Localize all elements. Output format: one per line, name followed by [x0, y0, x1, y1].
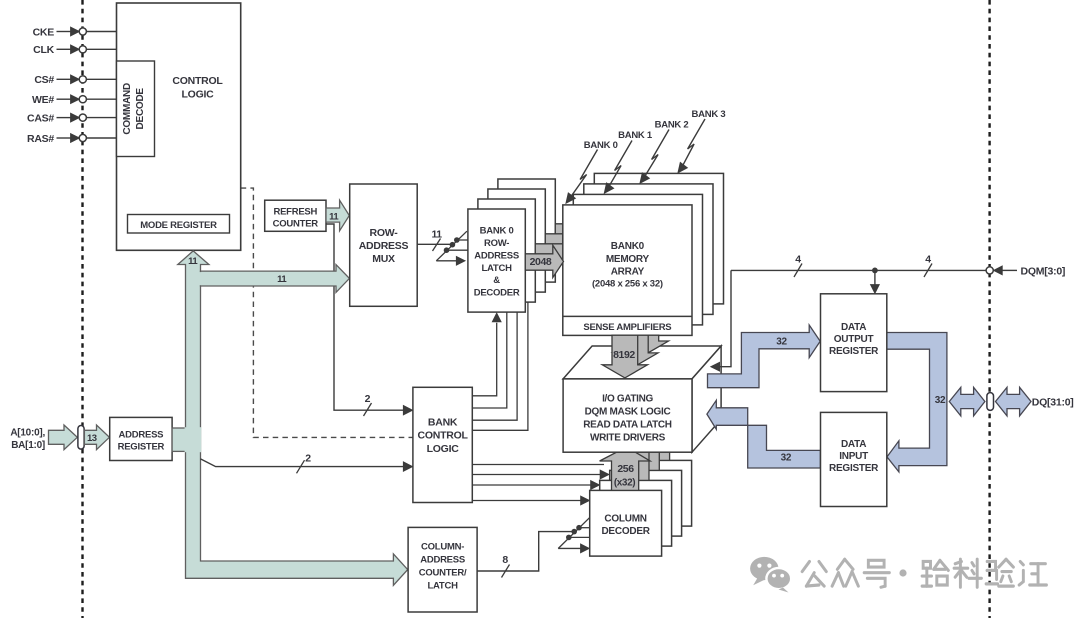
svg-text:BANK 1: BANK 1 [618, 130, 653, 141]
teal arrow REFRESH COUNTER to ROW-ADDRESS MUX with 11 [326, 200, 349, 231]
svg-text:DATA: DATA [841, 322, 866, 333]
block BANK 0 ROW-ADDRESS LATCH & DECODER [468, 209, 525, 312]
block BANK CONTROL LOGIC [413, 387, 472, 502]
svg-text:ADDRESS: ADDRESS [420, 555, 465, 566]
svg-text:DQM MASK LOGIC: DQM MASK LOGIC [585, 407, 671, 418]
bus 2048 arrow bank 0 with label [525, 245, 563, 277]
left boundary dashed line [81, 0, 83, 618]
svg-text:LOGIC: LOGIC [427, 443, 460, 455]
block BANK 2 ROW-ADDRESS LATCH (stacked) [488, 189, 545, 292]
blue double arrow trunk to DQ pad [949, 387, 985, 416]
svg-text:CS#: CS# [34, 74, 54, 86]
svg-text:LATCH: LATCH [427, 581, 458, 592]
arrowhead into BANK 0 latch bottom [492, 313, 501, 322]
bank label BANK 1 with zigzag pointer [604, 130, 653, 193]
bus 2048 arrow bank 3 (stacked) [555, 215, 593, 247]
block DATA OUTPUT REGISTER [821, 294, 887, 392]
input signal CAS# [27, 112, 117, 124]
wire bank select 2 to row-address latch stack [472, 312, 517, 420]
teal arm ADDRESS REGISTER to trunk [172, 428, 186, 451]
block BANK 3 ROW-ADDRESS LATCH (stacked) [498, 179, 555, 282]
svg-text:BANK 0: BANK 0 [584, 140, 618, 151]
block COLUMN-ADDRESS COUNTER/LATCH [408, 527, 477, 612]
svg-text:BA[1:0]: BA[1:0] [11, 440, 45, 451]
input signal WE# [32, 94, 117, 106]
svg-text:INPUT: INPUT [839, 451, 868, 462]
input signal CS# [34, 74, 116, 86]
svg-text:2: 2 [305, 453, 311, 465]
wire 2-bit bank address to BANK CONTROL LOGIC (upper) [326, 224, 412, 416]
teal input arrow A/BA to pad [49, 425, 78, 450]
svg-text:8192: 8192 [613, 349, 635, 361]
svg-text:MEMORY: MEMORY [606, 254, 650, 265]
svg-text:READ DATA LATCH: READ DATA LATCH [583, 420, 672, 431]
svg-text:13: 13 [87, 433, 97, 444]
block BANK 1 ROW-ADDRESS LATCH (stacked) [478, 199, 535, 302]
svg-text:REFRESH: REFRESH [273, 206, 317, 217]
svg-text:I/O GATING: I/O GATING [602, 394, 653, 405]
svg-text:4: 4 [925, 253, 931, 265]
wire row address 11 from MUX to latch fan [417, 229, 452, 251]
svg-text:LOGIC: LOGIC [182, 88, 215, 100]
svg-text:REGISTER: REGISTER [829, 346, 879, 357]
svg-text:DECODER: DECODER [474, 288, 520, 299]
svg-text:2048: 2048 [530, 256, 552, 268]
bus 256 arrow bank 3 (stacked) [631, 422, 682, 460]
svg-text:MODE REGISTER: MODE REGISTER [140, 220, 217, 231]
bank label BANK 3 with zigzag pointer [678, 109, 725, 173]
bus 8192 down arrow front with label [602, 335, 647, 378]
svg-text:DECODER: DECODER [601, 526, 650, 537]
svg-text:RAS#: RAS# [27, 133, 54, 145]
blue bus 32 write path DATA INPUT REGISTER to I/O gating [707, 400, 821, 468]
svg-text:11: 11 [188, 256, 198, 267]
block BANK 1 MEMORY ARRAY (stacked) [573, 194, 702, 325]
svg-text:COLUMN: COLUMN [604, 514, 646, 525]
svg-text:ADDRESS: ADDRESS [359, 240, 409, 252]
DQM pad circle on boundary [986, 267, 993, 274]
block column decoder bank 3 (stacked) [620, 460, 692, 526]
svg-text:COUNTER: COUNTER [273, 218, 319, 229]
svg-text:32: 32 [776, 337, 787, 348]
svg-text:11: 11 [329, 211, 339, 222]
svg-text:32: 32 [935, 395, 946, 406]
svg-text:REGISTER: REGISTER [118, 442, 165, 453]
block ADDRESS REGISTER [110, 417, 172, 460]
wire bank select 0 to column decoder stack (tip hidden) [472, 464, 604, 466]
sub-block COMMAND DECODE [117, 61, 155, 157]
wire bank select 3 to column decoder stack [472, 496, 589, 505]
svg-text:A[10:0],: A[10:0], [10, 428, 45, 439]
svg-text:BANK0: BANK0 [611, 241, 645, 252]
bus 8192 down arrow bank 2 (stacked) [623, 335, 668, 354]
svg-text:ROW-: ROW- [484, 238, 509, 249]
svg-text:COMMAND: COMMAND [122, 83, 133, 135]
block REFRESH COUNTER [265, 200, 326, 231]
bank label BANK 2 with zigzag pointer [640, 119, 688, 183]
block DATA INPUT REGISTER [821, 412, 887, 506]
svg-text:CONTROL: CONTROL [172, 75, 223, 87]
wire DQM to I/O gating (vertical with left arrow) [711, 270, 731, 371]
teal arrow pad to ADDRESS REGISTER with 13 [84, 425, 109, 450]
block BANK0 MEMORY ARRAY front [563, 205, 692, 336]
input signal RAS# [27, 133, 117, 145]
wire DQM horizontal with 4 labels [731, 253, 986, 277]
blue double arrow DQ pad to DQ[31:0] [996, 387, 1074, 416]
bus 256 arrow bank 2 (stacked) [620, 432, 671, 470]
svg-text:BANK 2: BANK 2 [655, 119, 689, 130]
svg-text:COUNTER/: COUNTER/ [419, 568, 467, 579]
svg-text:LATCH: LATCH [481, 263, 512, 274]
watermark wechat icon [750, 557, 791, 593]
bus 8192 down arrow bank 1 (stacked) [613, 335, 658, 366]
wire bank select 0 to row-address latch stack [472, 323, 496, 396]
wire bank select 2 to column decoder stack [472, 481, 599, 490]
input signal CKE [33, 26, 117, 38]
bus 256 arrow bank 1 (stacked) [610, 442, 661, 480]
teal arm trunk to ROW-ADDRESS MUX with 11 [199, 265, 349, 293]
svg-text:CLK: CLK [33, 44, 54, 56]
wire 2-bit bank address from trunk to BANK CONTROL LOGIC (lower) [201, 453, 413, 474]
block CONTROL LOGIC [117, 3, 241, 250]
teal bus trunk: ADDRESS REGISTER up to CONTROL LOGIC and down to bottom arm [178, 251, 408, 585]
bus 2048 arrow bank 2 (stacked) [545, 225, 583, 257]
svg-text:4: 4 [795, 253, 801, 265]
svg-text:MUX: MUX [372, 253, 395, 265]
wire bank select 3 to row-address latch stack [472, 302, 528, 430]
wire bank select 1 to row-address latch stack [472, 312, 507, 408]
svg-text:CKE: CKE [33, 26, 55, 38]
row fan diagonal with taps [436, 231, 468, 265]
wire DQM down into DATA OUTPUT REGISTER [871, 270, 880, 293]
input label A[10:0], BA[1:0] [10, 428, 45, 452]
svg-text:ARRAY: ARRAY [611, 267, 645, 278]
svg-text:SENSE AMPLIFIERS: SENSE AMPLIFIERS [583, 322, 671, 333]
svg-text:ADDRESS: ADDRESS [119, 429, 164, 440]
bus 256 (x32) arrow bank 0 with label [600, 452, 651, 490]
dashed control wire CONTROL LOGIC to BANK CONTROL LOGIC [241, 188, 413, 437]
svg-text:ADDRESS: ADDRESS [474, 250, 519, 261]
svg-text:256: 256 [617, 463, 634, 475]
svg-text:DECODE: DECODE [135, 88, 146, 130]
input signal CLK [33, 44, 116, 56]
svg-text:8: 8 [502, 554, 508, 566]
sub-block MODE REGISTER [128, 215, 230, 234]
svg-text:DQ[31:0]: DQ[31:0] [1032, 396, 1074, 408]
blue bus DATA OUTPUT REGISTER to DQ pad and into DATA INPUT REGISTER [887, 333, 947, 472]
svg-text:OUTPUT: OUTPUT [834, 334, 874, 345]
wire column address 8 to COLUMN DECODER fan [477, 532, 574, 578]
watermark text 公众号 · 路科验证 (approximated strokes) [802, 559, 1046, 587]
svg-text:11: 11 [277, 274, 287, 285]
svg-text:&: & [493, 275, 500, 286]
svg-text:BANK: BANK [428, 417, 458, 429]
svg-text:(x32): (x32) [614, 478, 635, 489]
svg-text:WRITE DRIVERS: WRITE DRIVERS [590, 433, 666, 444]
blue bus 32 read path I/O gating to DATA OUTPUT REGISTER [708, 325, 821, 388]
block COLUMN DECODER front [590, 490, 662, 556]
svg-text:BANK 3: BANK 3 [692, 109, 726, 120]
svg-text:REGISTER: REGISTER [829, 463, 879, 474]
block BANK 2 MEMORY ARRAY (stacked) [584, 184, 713, 315]
svg-text:DQM[3:0]: DQM[3:0] [1021, 265, 1066, 277]
svg-text:(2048 x 256 x 32): (2048 x 256 x 32) [592, 279, 663, 290]
column fan diagonal with taps [558, 518, 590, 553]
block I/O GATING / DQM MASK LOGIC / READ DATA LATCH / WRITE DRIVERS [563, 346, 721, 452]
svg-text:BANK 0: BANK 0 [480, 226, 514, 237]
svg-text:2: 2 [365, 393, 371, 405]
svg-text:32: 32 [781, 452, 792, 463]
svg-text:ROW-: ROW- [370, 227, 399, 239]
block column decoder bank 2 (stacked) [610, 470, 682, 536]
junction dot on DQM wire [872, 268, 878, 274]
svg-text:COLUMN-: COLUMN- [421, 542, 464, 553]
bus 2048 arrow bank 1 (stacked) [535, 235, 573, 267]
block column decoder bank 1 (stacked) [600, 480, 672, 546]
DQ pad capsule on boundary [987, 393, 994, 411]
bank label BANK 0 with zigzag pointer [566, 140, 618, 203]
wire bank select 1 to column decoder stack [472, 470, 609, 479]
input pad capsule on boundary [78, 426, 84, 450]
wire DQM[3:0] input with left arrowhead [994, 265, 1066, 277]
svg-text:CONTROL: CONTROL [418, 430, 469, 442]
svg-text:DATA: DATA [841, 439, 866, 450]
right boundary dashed line [988, 0, 990, 618]
block BANK 3 MEMORY ARRAY (stacked) [594, 173, 723, 304]
block ROW-ADDRESS MUX [350, 184, 418, 306]
svg-text:WE#: WE# [32, 94, 54, 106]
svg-text:CAS#: CAS# [27, 112, 54, 124]
